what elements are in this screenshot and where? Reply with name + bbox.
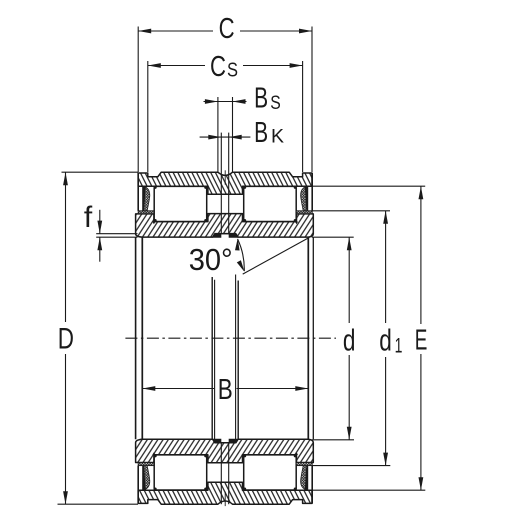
dimension C: line and arrows <box>138 29 312 34</box>
undercut nicks at inner ring shoulders <box>152 222 298 455</box>
lubrication hole, lower half <box>221 443 228 504</box>
dimension d: line and arrows <box>347 237 352 440</box>
svg-text:K: K <box>271 126 284 148</box>
outer ring, lower half section <box>138 482 312 504</box>
dimension Bs: extension lines <box>218 97 233 172</box>
dimension f: extension lines <box>96 234 137 238</box>
svg-text:B: B <box>254 117 268 149</box>
bore groove left edge lines <box>212 277 214 439</box>
roller, upper-right <box>243 186 297 222</box>
dimension Bk: line and arrows <box>200 135 251 140</box>
seal, upper-left <box>138 173 154 214</box>
dimension D: extension lines <box>58 172 139 504</box>
svg-text:B: B <box>254 83 268 115</box>
dimension d1: extension lines <box>312 211 391 466</box>
svg-text:d: d <box>379 323 392 358</box>
dimension d1: line and arrows <box>383 211 388 466</box>
svg-text:S: S <box>270 92 281 114</box>
inner ring, lower half section <box>136 439 314 463</box>
svg-text:f: f <box>84 201 93 234</box>
bore edge right (B extension) <box>307 237 309 439</box>
svg-text:d: d <box>343 323 356 358</box>
svg-text:S: S <box>227 60 238 82</box>
dimension E: extension lines <box>312 186 425 490</box>
inner ring right face line (bore area) <box>312 237 314 439</box>
roller, upper-left <box>154 186 208 222</box>
seal, upper-right <box>296 173 312 214</box>
dimension f: arrows <box>97 210 102 262</box>
30 degree angle arc with arrows <box>235 238 245 272</box>
svg-text:E: E <box>415 325 428 357</box>
dimension C: extension lines <box>138 27 312 173</box>
outer ring, upper half section <box>138 172 312 194</box>
lubrication hole, outer ring top (Bk) <box>221 133 228 234</box>
svg-text:C: C <box>219 13 235 45</box>
dimension Cs: line and arrows <box>148 63 303 68</box>
inner ring, upper half section <box>136 214 314 238</box>
roller, lower-right <box>243 454 297 490</box>
lubrication hole centre line, bottom <box>224 492 226 506</box>
lubrication hole centre line, top <box>224 170 226 184</box>
30 degree groove chamfer construction line <box>243 237 310 274</box>
bore lubrication groove, upper half <box>212 233 238 237</box>
dimension d: extension lines <box>312 237 354 440</box>
roller, lower-left <box>154 454 208 490</box>
bore groove right edge lines <box>236 275 239 440</box>
inner ring left face line (bore area) <box>135 237 137 439</box>
seal, lower-left <box>138 463 154 504</box>
bore edge left (B extension) <box>141 237 143 439</box>
dimension Cs: extension lines <box>148 61 303 172</box>
dimension B: line and arrows <box>142 386 308 391</box>
svg-text:B: B <box>218 374 233 406</box>
svg-text:D: D <box>58 323 74 356</box>
bore lubrication groove, lower half <box>212 439 238 443</box>
seal, lower-right <box>296 463 312 504</box>
svg-text:30°: 30° <box>189 242 233 277</box>
svg-text:1: 1 <box>395 335 403 358</box>
dimension D: line and arrows <box>63 172 68 504</box>
svg-text:C: C <box>210 51 226 83</box>
dimension E: line and arrows <box>419 186 424 490</box>
dimension Bs: line and arrows <box>204 99 247 104</box>
bearing axis centre line <box>125 337 336 339</box>
